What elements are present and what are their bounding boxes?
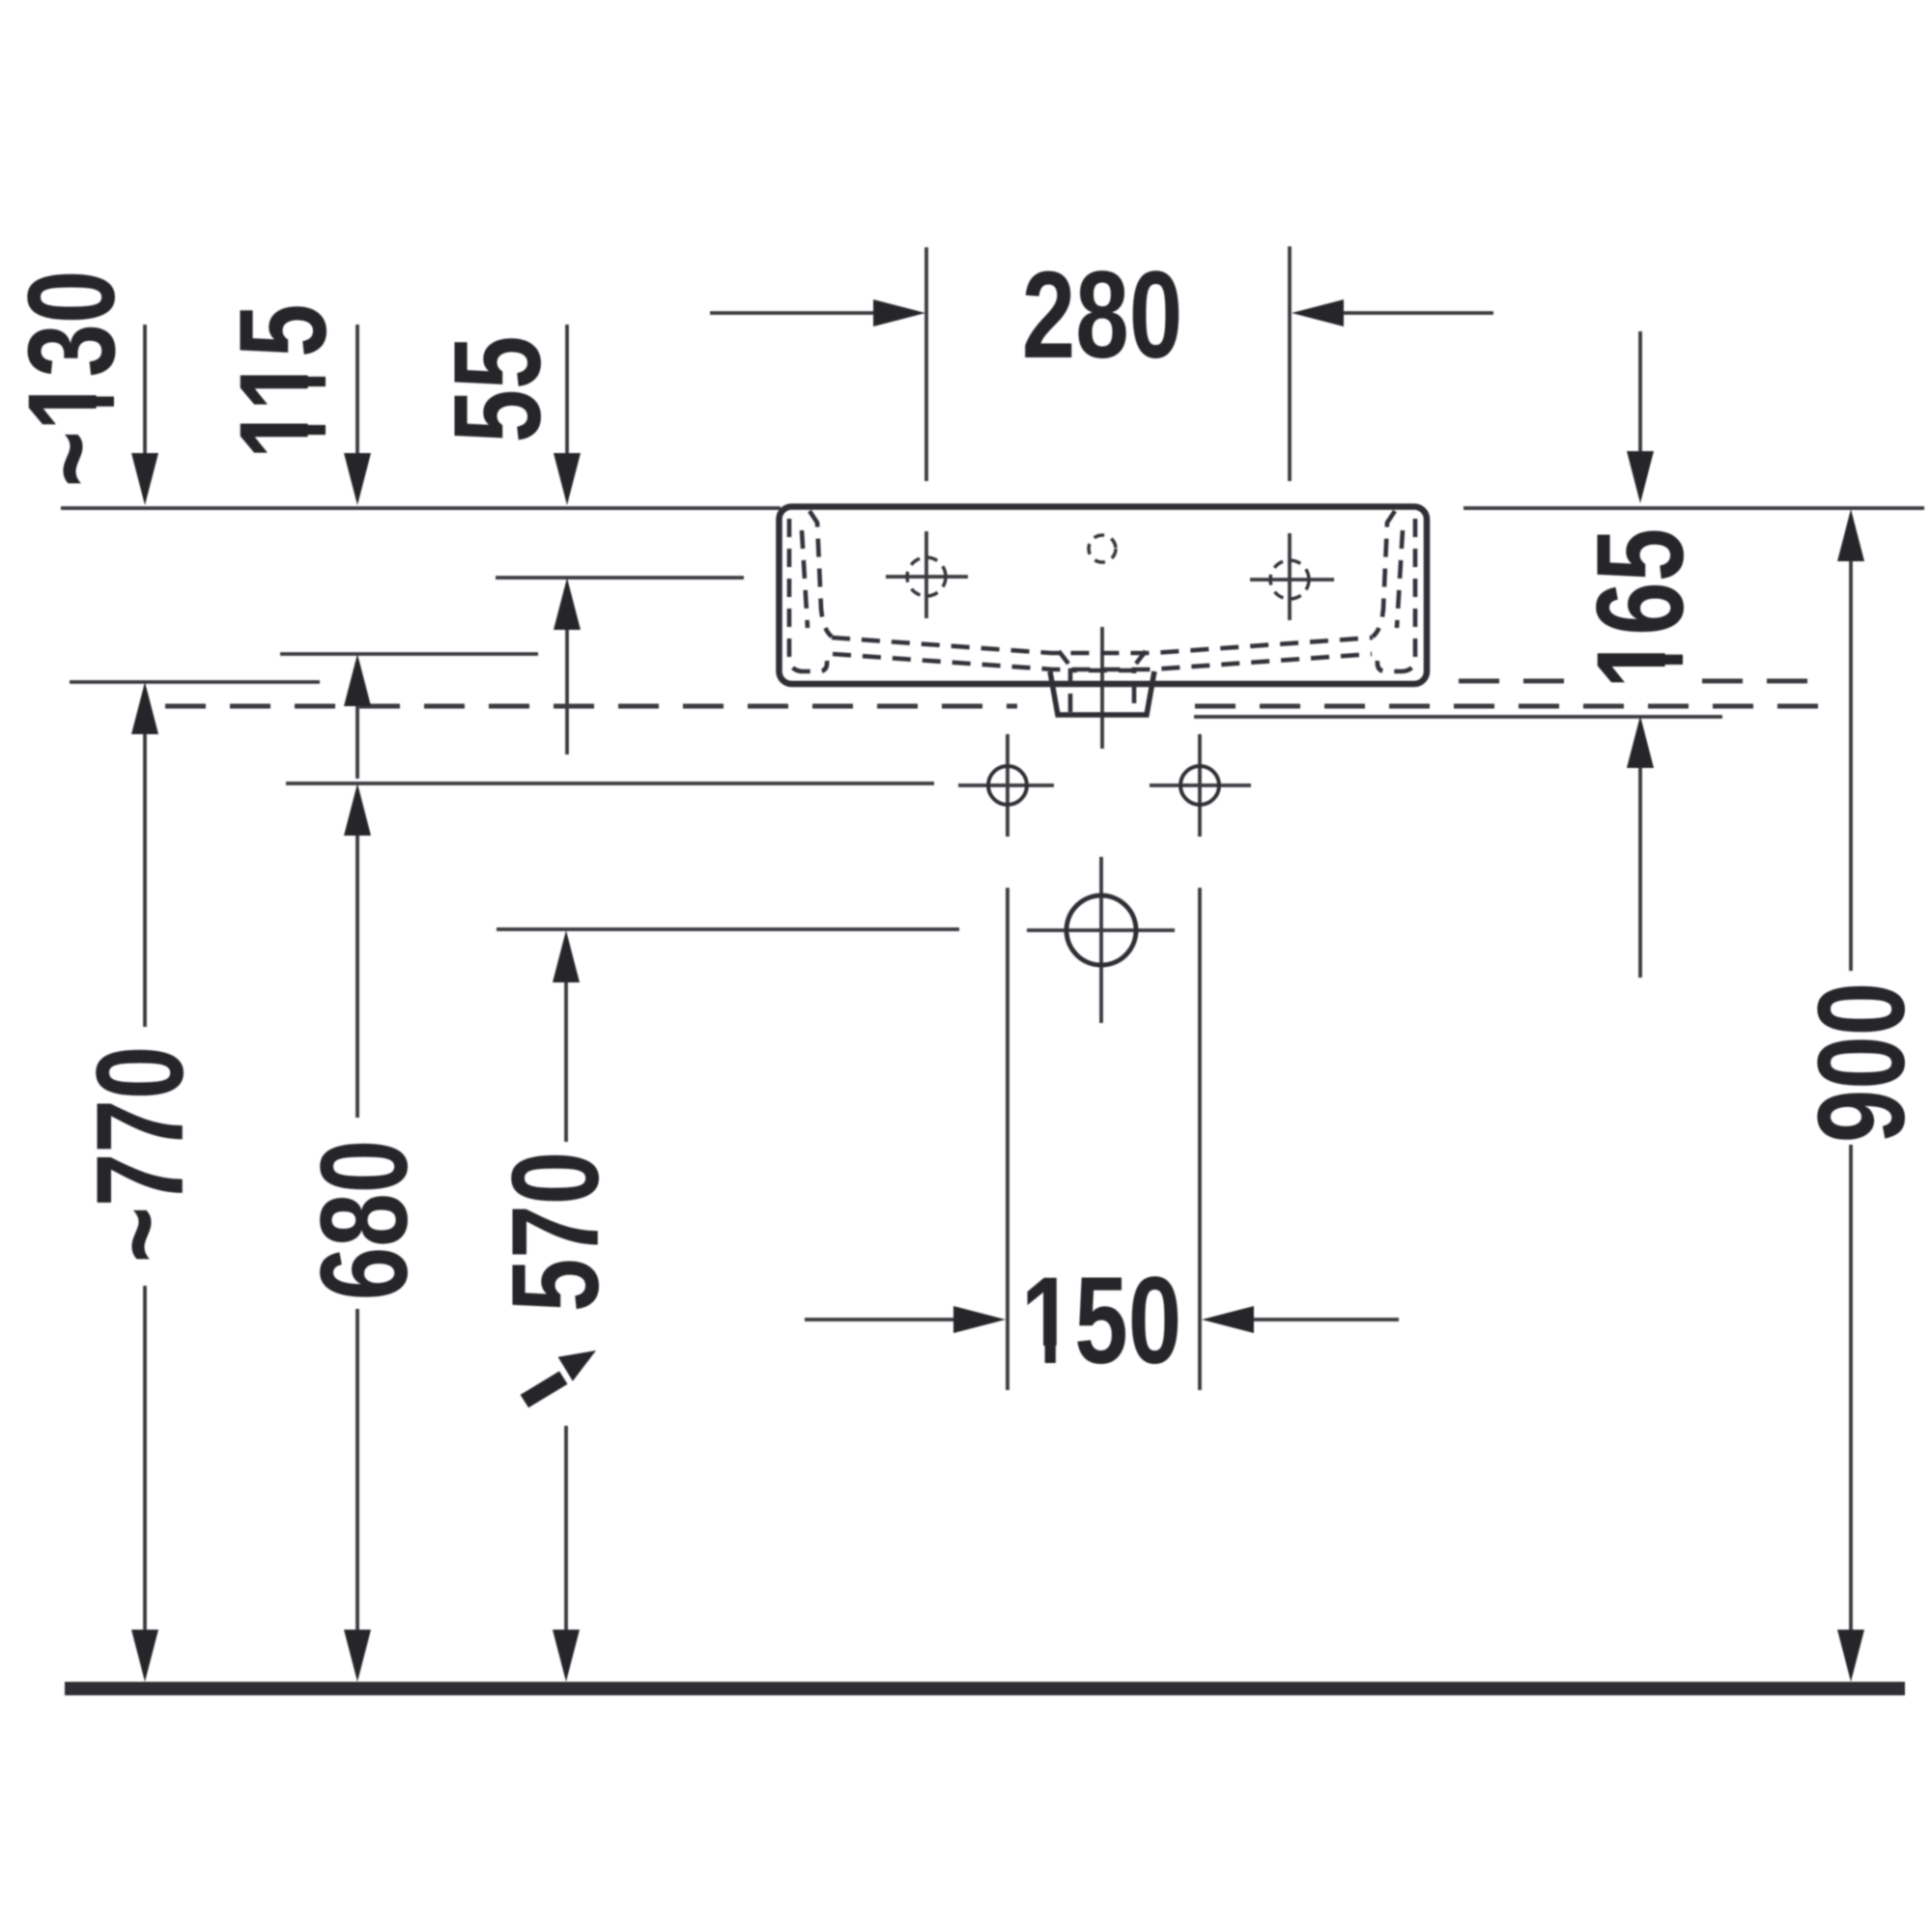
150 extension line right bbox=[1198, 888, 1202, 1390]
165 top arrow tail bbox=[1638, 331, 1642, 453]
basin left pocket inner dashed wall bbox=[810, 511, 832, 637]
570 dimension line upper part bbox=[564, 980, 568, 1142]
55 top arrow tail bbox=[565, 325, 569, 455]
tap hole axis extension left (55 level line) bbox=[496, 576, 744, 580]
console dashed line right upper 2 bbox=[1702, 679, 1819, 684]
280 arrowhead left segment bbox=[873, 299, 925, 327]
basin right pocket middle dashed wall bbox=[1397, 530, 1403, 628]
~130 top arrow tail bbox=[143, 325, 147, 455]
basin right pocket inner dashed wall bbox=[1373, 511, 1395, 637]
svg-text:55: 55 bbox=[429, 335, 567, 442]
680 floor arrowhead down bbox=[344, 1630, 371, 1682]
tap hole crosshair vertical right bbox=[1288, 533, 1292, 620]
supply circle crosshair horizontal left bbox=[958, 783, 1054, 787]
console dashed line right upper bbox=[1459, 679, 1582, 684]
55 bottom arrow tail bbox=[565, 628, 569, 754]
280 extension line left bbox=[924, 247, 928, 481]
680 level line bbox=[286, 781, 934, 785]
drain pipe crosshair horizontal bbox=[1027, 928, 1175, 932]
basin left pocket middle dashed wall bbox=[802, 530, 808, 628]
digit-1 foot trim ~130 bbox=[97, 379, 116, 397]
tap hole crosshair horizontal left bbox=[886, 575, 968, 579]
svg-text:280: 280 bbox=[1022, 246, 1183, 384]
~770 top arrowhead up bbox=[131, 682, 158, 734]
digit-1 foot trim 150 bbox=[1027, 1346, 1045, 1365]
~770 floor arrowhead down bbox=[131, 1630, 158, 1682]
115 bottom arrow tail bbox=[355, 704, 359, 779]
supply connection circle right bbox=[1180, 766, 1219, 805]
svg-text:165: 165 bbox=[1572, 528, 1710, 690]
tap hole dashed circle right bbox=[1270, 560, 1309, 599]
150 arrowhead left segment bbox=[953, 1306, 1006, 1333]
115 bottom arrowhead up bbox=[344, 654, 371, 706]
680 dimension line lower part bbox=[355, 1309, 359, 1634]
165 top arrowhead down bbox=[1627, 451, 1654, 503]
washbasin body outline bbox=[780, 507, 1428, 685]
900 dimension line upper part bbox=[1849, 559, 1853, 971]
~130 top arrowhead down bbox=[131, 453, 158, 505]
150 dimension line left segment bbox=[805, 1318, 990, 1321]
115 top arrowhead down bbox=[344, 453, 371, 505]
900 top arrowhead up bbox=[1837, 509, 1864, 561]
supply connection circle left bbox=[988, 766, 1027, 805]
supply circle crosshair vertical right bbox=[1198, 734, 1202, 837]
drain bend tick left bbox=[1059, 651, 1068, 664]
tap hole dashed circle left bbox=[907, 557, 946, 596]
680 dimension line upper part bbox=[355, 834, 359, 1118]
55 top arrowhead down bbox=[554, 453, 581, 505]
svg-text:~770: ~770 bbox=[71, 1046, 210, 1264]
wall line left bbox=[61, 506, 781, 510]
tap hole crosshair vertical left bbox=[924, 531, 928, 618]
165 bottom arrow tail bbox=[1638, 766, 1642, 978]
drain centerline bbox=[1100, 627, 1104, 749]
supply circle crosshair vertical left bbox=[1006, 734, 1009, 837]
svg-text:115: 115 bbox=[214, 303, 353, 459]
console dashed line left bbox=[165, 704, 1017, 709]
svg-text:900: 900 bbox=[1793, 982, 1931, 1144]
570 level line bbox=[497, 927, 959, 931]
svg-text:150: 150 bbox=[1021, 1252, 1182, 1390]
basin bottom upper dashed line bbox=[832, 638, 1373, 653]
basin right pocket outer dashed wall bbox=[1378, 519, 1415, 671]
570 floor arrowhead down bbox=[553, 1630, 580, 1682]
570 diagonal pointer arrow bbox=[521, 1371, 568, 1407]
280 dimension line right segment bbox=[1309, 311, 1493, 315]
digit-1 foot trim 115 first bbox=[308, 407, 327, 425]
115 top arrow tail bbox=[355, 325, 359, 455]
~770 dimension line upper part bbox=[143, 732, 147, 1027]
floor line bbox=[65, 1682, 1905, 1695]
wall line right bbox=[1463, 506, 1924, 510]
tap hole crosshair horizontal right bbox=[1250, 578, 1334, 582]
150 extension line left bbox=[1006, 888, 1009, 1390]
115 level line bbox=[280, 652, 538, 656]
900 floor arrowhead down bbox=[1837, 1630, 1864, 1682]
drain pipe crosshair vertical bbox=[1099, 857, 1103, 1023]
svg-text:~130: ~130 bbox=[3, 270, 141, 488]
digit-1 foot trim 165 bbox=[1665, 637, 1685, 655]
150 arrowhead right segment bbox=[1202, 1306, 1254, 1333]
basin left pocket outer dashed wall bbox=[789, 519, 827, 671]
basin bottom lower dashed line bbox=[833, 654, 1372, 669]
drain fitting trapezoid bbox=[1050, 671, 1154, 715]
165 bottom arrowhead up bbox=[1627, 716, 1654, 768]
digit-1 foot trim 115 second bbox=[308, 358, 327, 377]
drain bend tick right bbox=[1136, 651, 1146, 664]
supply circle crosshair horizontal right bbox=[1150, 783, 1251, 787]
svg-text:570: 570 bbox=[487, 1151, 625, 1313]
280 arrowhead right segment bbox=[1292, 299, 1344, 327]
drain dashed rectangle bbox=[1070, 670, 1134, 712]
900 dimension line lower part bbox=[1849, 1145, 1853, 1634]
console dashed line right bbox=[1195, 704, 1819, 709]
280 dimension line left segment bbox=[710, 311, 908, 315]
55 bottom arrowhead up bbox=[554, 578, 581, 630]
overflow dashed circle bbox=[1089, 535, 1116, 562]
150 dimension line right segment bbox=[1217, 1318, 1399, 1321]
~770 dimension line lower part bbox=[143, 1286, 147, 1634]
drain pipe circle bbox=[1066, 895, 1136, 965]
680 top arrowhead up bbox=[344, 783, 371, 836]
570 dimension line lower part bbox=[564, 1426, 568, 1634]
~130 / ~770 level line bbox=[70, 680, 320, 684]
165 lower level line bbox=[1194, 715, 1722, 719]
570 top arrowhead up bbox=[553, 930, 580, 982]
280 extension line right bbox=[1288, 246, 1292, 481]
svg-text:680: 680 bbox=[296, 1140, 434, 1301]
